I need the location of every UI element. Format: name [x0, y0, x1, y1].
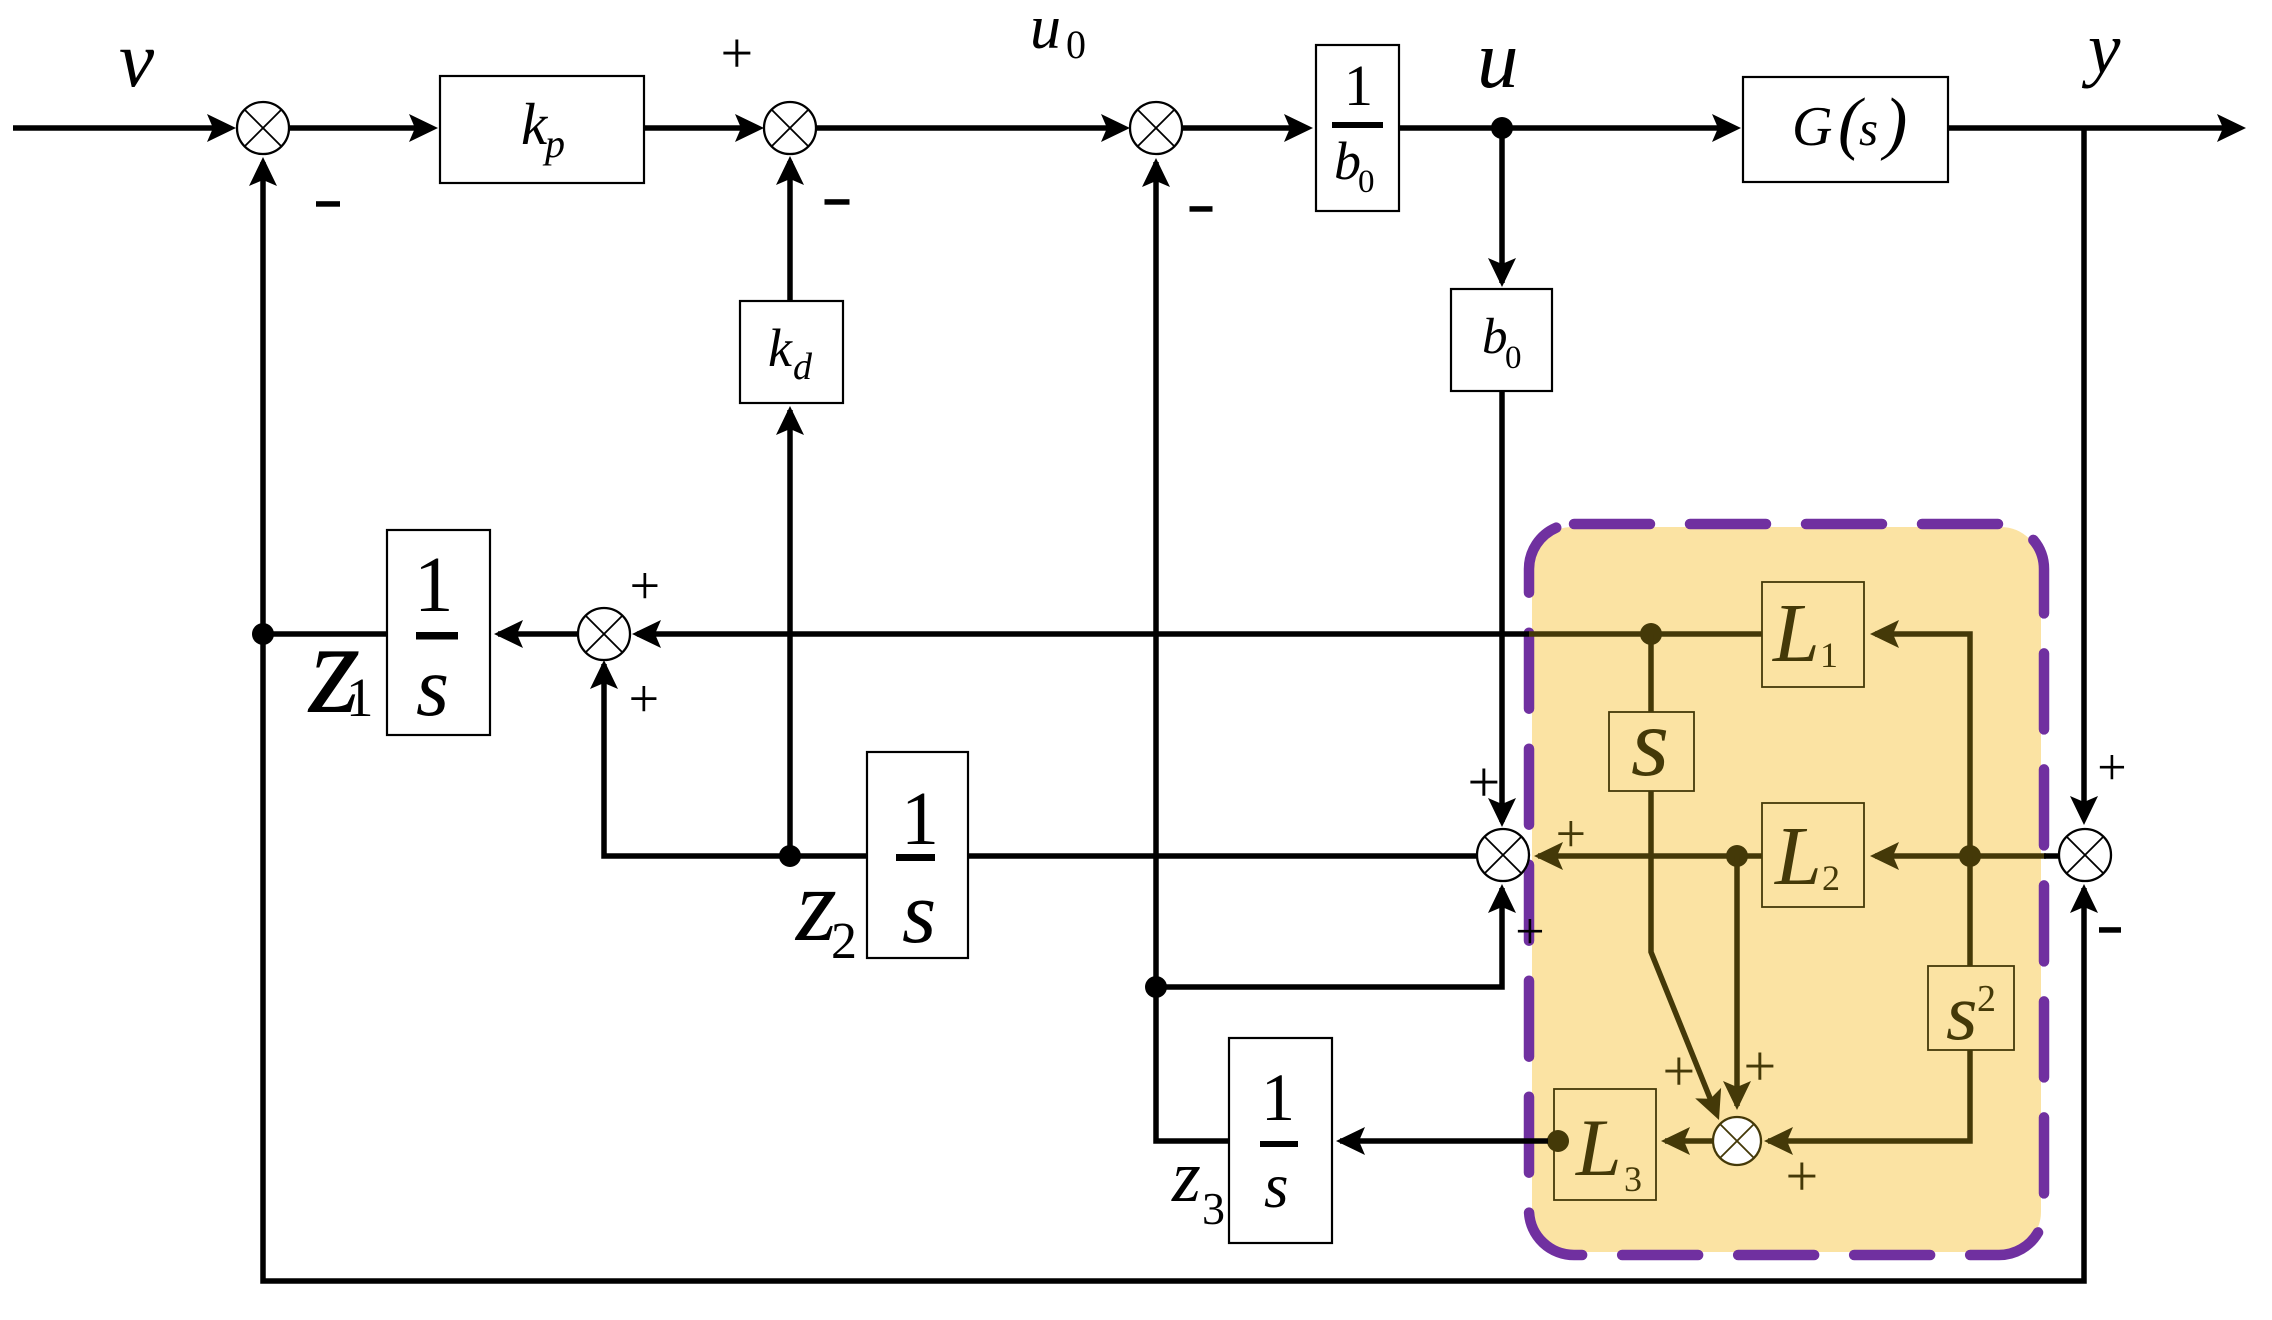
minus sign z1 into sum5	[2099, 927, 2121, 933]
wire L1 output segment	[1529, 631, 1762, 637]
svg-text:+: +	[1556, 803, 1586, 863]
svg-text:+: +	[630, 555, 660, 615]
wire z1 down along bottom up to sum5	[263, 634, 2084, 1281]
node z3 branch	[1145, 976, 1167, 998]
svg-text:0: 0	[1505, 340, 1522, 376]
wire e into L2	[1875, 853, 2046, 859]
wire z3 up to sum3	[1156, 162, 1229, 1141]
wire z1 up to sum1	[260, 162, 266, 634]
svg-text:s: s	[902, 865, 936, 962]
block L3	[1554, 1089, 1656, 1200]
node L1 output / s tap	[1640, 623, 1662, 645]
block 1/s (z1)	[387, 530, 490, 735]
block 1/s (z3)	[1229, 1038, 1332, 1243]
svg-text:p: p	[542, 121, 565, 166]
block L2	[1762, 803, 1864, 907]
wire sum2 to sum3	[816, 125, 1123, 131]
svg-text:+: +	[1515, 904, 1544, 961]
minus sign z1 into sum1	[316, 201, 340, 207]
svg-text:s: s	[416, 640, 449, 734]
ESO highlighted region (orange fill)	[1532, 527, 2041, 1252]
block s	[1609, 712, 1694, 791]
wire b0 down to sum4	[1499, 391, 1505, 822]
wire u down to b0	[1499, 128, 1505, 283]
node at L3 output	[1547, 1130, 1569, 1152]
svg-text:z: z	[1171, 1136, 1201, 1218]
svg-text:s: s	[1859, 101, 1878, 156]
minus sign kd into sum2	[825, 199, 850, 205]
svg-text:s: s	[1264, 1151, 1289, 1221]
svg-text:1: 1	[1820, 635, 1838, 675]
svg-text:k: k	[768, 318, 793, 378]
minus sign z3 into sum3	[1190, 206, 1213, 212]
wire y feedback down to sum5	[2081, 128, 2087, 818]
svg-text:0: 0	[1066, 22, 1086, 67]
block 1/s (z2)	[867, 752, 968, 958]
svg-text:2: 2	[831, 913, 857, 970]
wire s block down and diagonal to z3-dot sum	[1651, 791, 1714, 1108]
wire z1 output to node	[263, 631, 387, 637]
svg-text:b: b	[1482, 309, 1508, 365]
wire input v to sum1	[13, 125, 230, 131]
wire kp to sum2	[644, 125, 757, 131]
svg-text:1: 1	[414, 542, 454, 629]
wire s2 down and into z3-dot sum	[1768, 1050, 1970, 1141]
svg-text:1: 1	[1261, 1059, 1295, 1135]
wire e into L1 (observer)	[1875, 634, 1970, 856]
summing junction sum1	[237, 102, 289, 154]
svg-text:+: +	[1663, 1039, 1696, 1104]
block kd	[740, 301, 843, 403]
svg-text:u: u	[1477, 13, 1519, 105]
wire sum4 output to z2 block	[968, 853, 1477, 859]
block 1/b0	[1316, 45, 1399, 211]
node z1 feedback	[252, 623, 274, 645]
block s2	[1928, 966, 2014, 1050]
wire sum5 stub to observer edge	[2044, 853, 2059, 859]
svg-text:s: s	[1946, 967, 1978, 1057]
svg-text:+: +	[629, 668, 659, 728]
summing junction sum3	[1130, 102, 1182, 154]
wire L2 output to z2-dot sum	[1538, 853, 1762, 859]
wire z2 output to sum6	[604, 664, 867, 856]
svg-text:3: 3	[1202, 1183, 1225, 1234]
wire L2 node down to z3-dot sum	[1734, 856, 1740, 1106]
wire sum6 to z1 block	[498, 631, 578, 637]
svg-text:s: s	[1631, 689, 1669, 797]
summing junction sum2	[764, 102, 816, 154]
svg-text:v: v	[119, 17, 155, 104]
svg-text:2: 2	[1822, 858, 1840, 898]
wire sum1 to kp	[289, 125, 431, 131]
wire L3 output to z3 block	[1340, 1138, 1548, 1144]
svg-text:L: L	[1774, 810, 1822, 903]
block b0	[1451, 289, 1552, 391]
wire node down to s block	[1648, 634, 1654, 712]
block kp	[440, 76, 644, 183]
wire z3 branch into sum4 bottom	[1156, 888, 1502, 987]
svg-text:+: +	[1786, 1144, 1819, 1209]
svg-text:1: 1	[901, 777, 939, 861]
wire 1/b0 to G(s)	[1399, 125, 1734, 131]
node kd tap	[779, 845, 801, 867]
wire z3-dot sum to L3	[1665, 1138, 1713, 1144]
summing junction sum6	[578, 608, 630, 660]
node u	[1491, 117, 1513, 139]
svg-text:): )	[1880, 85, 1907, 162]
summing junction sum5	[2059, 829, 2111, 881]
svg-text:0: 0	[1358, 164, 1375, 200]
wire sum3 to 1/b0 block	[1182, 125, 1306, 131]
block L1	[1762, 582, 1864, 687]
svg-text:b: b	[1334, 131, 1361, 191]
svg-text:2: 2	[1977, 978, 1996, 1020]
svg-text:d: d	[793, 346, 813, 388]
svg-text:+: +	[721, 21, 754, 86]
wire e down to s2 block	[1967, 856, 1973, 966]
summing junction sum4	[1477, 829, 1529, 881]
svg-text:1: 1	[346, 667, 374, 728]
node e branch point	[1959, 845, 1981, 867]
svg-text:L: L	[1575, 1102, 1622, 1193]
svg-text:G: G	[1792, 96, 1832, 158]
svg-text:3: 3	[1624, 1159, 1642, 1199]
summing junction z3-dot (observer)	[1713, 1117, 1761, 1165]
wire kd tap up to kd block	[787, 410, 793, 856]
wire long L1 line into sum6	[637, 631, 1529, 637]
wire kd to sum2	[787, 161, 793, 301]
svg-text:+: +	[2097, 740, 2126, 797]
svg-text:L: L	[1772, 587, 1820, 680]
svg-text:1: 1	[1344, 53, 1373, 118]
svg-text:+: +	[1744, 1034, 1777, 1099]
block G(s)	[1743, 77, 1948, 182]
ESO dashed purple border	[1529, 524, 2044, 1255]
wire G(s) to output y	[1948, 125, 2238, 131]
svg-text:+: +	[1468, 750, 1501, 815]
svg-text:u: u	[1030, 0, 1061, 62]
node L2 output branch	[1726, 845, 1748, 867]
